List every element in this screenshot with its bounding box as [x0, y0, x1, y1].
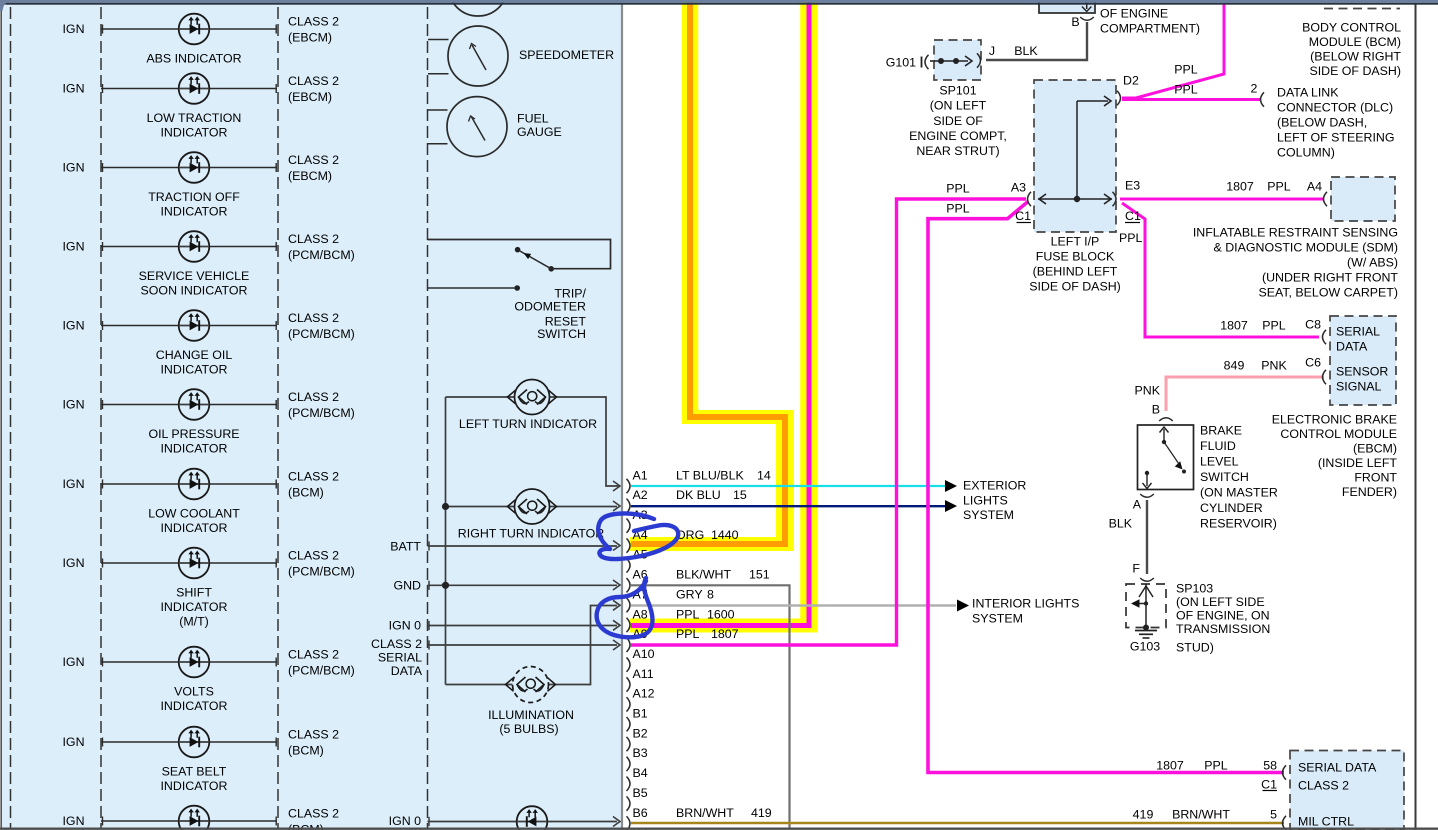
- svg-text:IGN: IGN: [62, 81, 84, 95]
- svg-text:PPL: PPL: [946, 201, 970, 215]
- svg-text:419: 419: [751, 806, 772, 820]
- svg-text:(INSIDE LEFT: (INSIDE LEFT: [1318, 456, 1398, 470]
- svg-text:SYSTEM: SYSTEM: [972, 611, 1023, 625]
- svg-text:PPL: PPL: [1204, 758, 1228, 772]
- trip/odometer reset switch: [428, 240, 611, 269]
- gauge (partial, scrolled off top): [448, 0, 508, 16]
- svg-text:A: A: [1133, 497, 1142, 511]
- svg-text:& DIAGNOSTIC MODULE (SDM): & DIAGNOSTIC MODULE (SDM): [1214, 240, 1399, 254]
- svg-text:1807: 1807: [1156, 758, 1184, 772]
- wire PPL to DLC D2 from top: [1122, 3, 1224, 98]
- svg-text:(ON MASTER: (ON MASTER: [1200, 485, 1278, 499]
- wire PPL 1600 (magenta): [631, 0, 809, 626]
- svg-text:(W/ ABS): (W/ ABS): [1347, 255, 1398, 269]
- svg-text:BRN/WHT: BRN/WHT: [676, 806, 734, 820]
- wire BLK from B to SP101: [986, 22, 1087, 60]
- svg-text:INDICATOR: INDICATOR: [160, 204, 227, 218]
- svg-text:BLK/WHT: BLK/WHT: [676, 568, 732, 582]
- svg-text:MODULE (BCM): MODULE (BCM): [1309, 35, 1401, 49]
- svg-text:A8: A8: [633, 607, 648, 621]
- svg-text:SP101: SP101: [939, 83, 976, 97]
- svg-text:CLASS 2: CLASS 2: [288, 232, 339, 246]
- svg-text:ENGINE COMPT,: ENGINE COMPT,: [909, 129, 1007, 143]
- svg-text:1807: 1807: [1226, 179, 1254, 193]
- svg-text:B2: B2: [633, 726, 648, 740]
- svg-text:A1: A1: [633, 468, 648, 482]
- svg-text:(PCM/BCM): (PCM/BCM): [288, 663, 355, 677]
- svg-text:A11: A11: [633, 667, 654, 681]
- svg-text:SIDE OF: SIDE OF: [933, 114, 983, 128]
- svg-text:SHIFT: SHIFT: [176, 585, 212, 599]
- svg-text:IGN 0: IGN 0: [389, 814, 421, 828]
- svg-text:FRONT: FRONT: [1354, 470, 1397, 484]
- svg-text:GRY: GRY: [676, 587, 703, 601]
- svg-text:CONNECTOR (DLC): CONNECTOR (DLC): [1277, 100, 1393, 114]
- svg-text:INDICATOR: INDICATOR: [160, 600, 227, 614]
- svg-text:SERVICE VEHICLE: SERVICE VEHICLE: [139, 269, 250, 283]
- body control module box (cut off): [1324, 8, 1400, 10]
- splice SP103: [1126, 584, 1166, 628]
- svg-text:IGN: IGN: [62, 655, 84, 669]
- svg-text:ODOMETER: ODOMETER: [514, 300, 586, 314]
- hand-drawn annotation circle around A8: [597, 578, 653, 637]
- cluster connector pin brackets A1-B7: [627, 479, 631, 493]
- svg-text:J: J: [989, 44, 995, 58]
- svg-text:B6: B6: [633, 806, 648, 820]
- svg-text:IGN: IGN: [62, 239, 84, 253]
- svg-text:SIDE OF DASH): SIDE OF DASH): [1309, 64, 1401, 78]
- svg-text:LOW TRACTION: LOW TRACTION: [147, 111, 242, 125]
- svg-text:INFLATABLE RESTRAINT SENSING: INFLATABLE RESTRAINT SENSING: [1193, 225, 1398, 239]
- svg-text:C8: C8: [1305, 317, 1321, 331]
- svg-text:PPL: PPL: [1262, 318, 1286, 332]
- svg-text:CHANGE OIL: CHANGE OIL: [156, 348, 233, 362]
- svg-text:FENDER): FENDER): [1342, 485, 1397, 499]
- svg-text:FLUID: FLUID: [1200, 439, 1236, 453]
- window top bar: [0, 0, 1438, 3]
- svg-text:(PCM/BCM): (PCM/BCM): [288, 327, 355, 341]
- wire GRY 8 to interior lights: [631, 604, 956, 606]
- svg-text:A2: A2: [633, 488, 648, 502]
- svg-text:IGN: IGN: [62, 318, 84, 332]
- svg-text:IGN: IGN: [62, 556, 84, 570]
- svg-text:SYSTEM: SYSTEM: [963, 508, 1014, 522]
- svg-text:A3: A3: [1011, 180, 1026, 194]
- svg-text:15: 15: [733, 488, 747, 502]
- svg-text:BRN/WHT: BRN/WHT: [1172, 807, 1230, 821]
- svg-text:C6: C6: [1305, 355, 1321, 369]
- dashed frame column lines: [10, 7, 12, 828]
- svg-text:CYLINDER: CYLINDER: [1200, 501, 1263, 515]
- svg-text:IGN: IGN: [62, 814, 84, 828]
- svg-text:1600: 1600: [707, 607, 735, 621]
- speedometer gauge: [428, 39, 449, 41]
- svg-text:SERIAL: SERIAL: [1336, 324, 1380, 338]
- svg-text:151: 151: [749, 568, 770, 582]
- svg-text:(PCM/BCM): (PCM/BCM): [288, 564, 355, 578]
- left window edge: [0, 10, 2, 828]
- svg-text:(BELOW DASH,: (BELOW DASH,: [1277, 115, 1367, 129]
- svg-text:CLASS 2: CLASS 2: [288, 311, 339, 325]
- svg-text:(BEHIND LEFT: (BEHIND LEFT: [1033, 264, 1118, 278]
- svg-text:G101: G101: [886, 55, 916, 69]
- svg-text:(UNDER RIGHT FRONT: (UNDER RIGHT FRONT: [1262, 270, 1398, 284]
- svg-text:1807: 1807: [1220, 318, 1248, 332]
- svg-text:1807: 1807: [711, 627, 739, 641]
- svg-text:BLK: BLK: [1014, 44, 1038, 58]
- svg-text:GAUGE: GAUGE: [517, 125, 562, 139]
- left turn indicator bulb: [515, 380, 550, 415]
- svg-text:CLASS 2: CLASS 2: [288, 548, 339, 562]
- svg-text:(PCM/BCM): (PCM/BCM): [288, 248, 355, 262]
- svg-text:SERIAL: SERIAL: [378, 650, 422, 664]
- wire PPL D2 to DLC pin 2: [1122, 98, 1261, 101]
- svg-text:2: 2: [1251, 81, 1258, 95]
- svg-text:PPL: PPL: [1174, 62, 1198, 76]
- illumination bulb (5 bulbs): [513, 667, 549, 703]
- wire DK BLU 15 to exterior lights: [631, 505, 945, 507]
- svg-text:LEFT TURN INDICATOR: LEFT TURN INDICATOR: [459, 417, 597, 431]
- right turn indicator bulb: [515, 489, 550, 524]
- svg-text:849: 849: [1224, 358, 1245, 372]
- svg-text:PNK: PNK: [1261, 358, 1287, 372]
- svg-text:LEFT OF STEERING: LEFT OF STEERING: [1277, 130, 1395, 144]
- svg-text:ILLUMINATION: ILLUMINATION: [488, 708, 574, 722]
- panel/harness boundary: [621, 5, 623, 830]
- svg-text:CLASS 2: CLASS 2: [288, 74, 339, 88]
- svg-text:CLASS 2: CLASS 2: [288, 647, 339, 661]
- svg-text:OF ENGINE: OF ENGINE: [1100, 6, 1168, 20]
- svg-text:(BELOW RIGHT: (BELOW RIGHT: [1310, 49, 1401, 63]
- svg-text:OIL PRESSURE: OIL PRESSURE: [148, 427, 239, 441]
- wire PNK 849 EBCM C6 to brake fluid level switch: [1166, 377, 1324, 411]
- wire: left turn indicator to pin A1: [446, 397, 619, 486]
- svg-text:IGN: IGN: [62, 735, 84, 749]
- ground G103: [1143, 625, 1149, 631]
- left I/P fuse block: [1034, 80, 1116, 232]
- svg-text:IGN: IGN: [62, 477, 84, 491]
- interior lights system arrow: [957, 600, 969, 612]
- svg-text:SWITCH: SWITCH: [537, 327, 586, 341]
- svg-text:NEAR STRUT): NEAR STRUT): [916, 144, 999, 158]
- svg-text:IGN: IGN: [62, 22, 84, 36]
- highlighter band over ORG 1440 wire: [682, 0, 699, 424]
- svg-text:SERIAL DATA: SERIAL DATA: [1298, 760, 1377, 774]
- svg-text:RIGHT TURN INDICATOR: RIGHT TURN INDICATOR: [458, 526, 604, 540]
- svg-text:PNK: PNK: [1135, 383, 1161, 397]
- svg-text:SENSOR: SENSOR: [1336, 364, 1388, 378]
- svg-text:COLUMN): COLUMN): [1277, 145, 1335, 159]
- svg-text:(ON LEFT SIDE: (ON LEFT SIDE: [1176, 595, 1265, 609]
- svg-text:INDICATOR: INDICATOR: [160, 521, 227, 535]
- svg-text:(5 BULBS): (5 BULBS): [499, 722, 558, 736]
- svg-text:RESERVOIR): RESERVOIR): [1200, 516, 1277, 530]
- fuel gauge: [428, 109, 448, 111]
- svg-text:B: B: [1071, 15, 1079, 29]
- svg-text:CLASS 2: CLASS 2: [1298, 778, 1349, 792]
- svg-text:PPL: PPL: [946, 181, 970, 195]
- svg-text:SIGNAL: SIGNAL: [1336, 379, 1382, 393]
- svg-text:INTERIOR LIGHTS: INTERIOR LIGHTS: [972, 596, 1079, 610]
- MIL indicator lamp: [517, 806, 548, 830]
- svg-text:SPEEDOMETER: SPEEDOMETER: [519, 48, 614, 62]
- wire PPL 1807 pin A9 up to fuse block A3: [631, 199, 1026, 645]
- right window edge: [1415, 4, 1417, 830]
- svg-text:INDICATOR: INDICATOR: [160, 779, 227, 793]
- svg-text:SEAT BELT: SEAT BELT: [162, 764, 227, 778]
- svg-text:CLASS 2: CLASS 2: [288, 806, 339, 820]
- svg-text:ELECTRONIC BRAKE: ELECTRONIC BRAKE: [1272, 412, 1397, 426]
- svg-text:DATA LINK: DATA LINK: [1277, 85, 1339, 99]
- wire BRN/WHT 419 pin B6 to MIL CTRL: [631, 822, 1284, 824]
- svg-text:(EBCM): (EBCM): [288, 169, 332, 183]
- svg-text:IGN: IGN: [62, 397, 84, 411]
- svg-text:(EBCM): (EBCM): [288, 90, 332, 104]
- svg-text:STUD): STUD): [1176, 640, 1214, 654]
- wire ORG 1440 (orange): [631, 0, 785, 544]
- illumination bulbs wire: [446, 684, 514, 686]
- svg-text:A12: A12: [633, 687, 655, 701]
- svg-text:LEFT I/P: LEFT I/P: [1051, 234, 1100, 248]
- svg-text:CLASS 2: CLASS 2: [288, 390, 339, 404]
- svg-text:TRACTION OFF: TRACTION OFF: [148, 190, 240, 204]
- svg-text:VOLTS: VOLTS: [174, 684, 214, 698]
- wire BLK/WHT 151: [631, 585, 790, 827]
- svg-text:C1: C1: [1125, 209, 1141, 223]
- svg-text:SOON INDICATOR: SOON INDICATOR: [141, 283, 248, 297]
- svg-text:(M/T): (M/T): [179, 615, 209, 629]
- wire: right turn indicator to pin A2: [446, 506, 618, 508]
- svg-text:LOW COOLANT: LOW COOLANT: [148, 506, 240, 520]
- svg-text:B1: B1: [633, 707, 648, 721]
- svg-text:PPL: PPL: [676, 627, 700, 641]
- svg-text:CLASS 2: CLASS 2: [288, 727, 339, 741]
- svg-text:INDICATOR: INDICATOR: [160, 699, 227, 713]
- svg-text:CLASS 2: CLASS 2: [288, 153, 339, 167]
- svg-text:58: 58: [1263, 758, 1277, 772]
- svg-text:LEVEL: LEVEL: [1200, 454, 1239, 468]
- wire BLK switch to SP103: [1146, 500, 1148, 574]
- svg-text:LIGHTS: LIGHTS: [963, 493, 1008, 507]
- svg-text:(EBCM): (EBCM): [1353, 441, 1397, 455]
- fuse block internal bus: [1038, 198, 1112, 200]
- feed wire start ticks: [428, 541, 430, 550]
- svg-text:GND: GND: [393, 578, 421, 592]
- svg-text:B5: B5: [633, 786, 648, 800]
- svg-text:(PCM/BCM): (PCM/BCM): [288, 406, 355, 420]
- svg-text:1440: 1440: [711, 528, 739, 542]
- svg-text:SP103: SP103: [1176, 581, 1213, 595]
- svg-text:MIL CTRL: MIL CTRL: [1298, 814, 1354, 828]
- svg-text:E3: E3: [1125, 178, 1140, 192]
- svg-text:C1: C1: [1015, 209, 1031, 223]
- wire PPL 1807 from fuse block C1 down to serial data: [928, 202, 1284, 773]
- wire LT BLU/BLK 14 to exterior lights: [631, 485, 945, 487]
- svg-text:BLK: BLK: [1109, 516, 1133, 530]
- svg-text:TRANSMISSION: TRANSMISSION: [1176, 622, 1270, 636]
- svg-text:BRAKE: BRAKE: [1200, 423, 1242, 437]
- svg-text:INDICATOR: INDICATOR: [160, 362, 227, 376]
- bottom frame edge: [0, 828, 1438, 830]
- svg-text:EXTERIOR: EXTERIOR: [963, 478, 1026, 492]
- svg-text:A10: A10: [633, 647, 655, 661]
- svg-text:DATA: DATA: [391, 664, 423, 678]
- svg-text:FUSE BLOCK: FUSE BLOCK: [1036, 249, 1115, 263]
- svg-text:PPL: PPL: [1174, 82, 1198, 96]
- svg-text:(BCM): (BCM): [288, 485, 324, 499]
- svg-text:D2: D2: [1123, 73, 1139, 87]
- svg-text:IGN: IGN: [62, 160, 84, 174]
- svg-text:B3: B3: [633, 746, 648, 760]
- svg-text:(EBCM): (EBCM): [288, 30, 332, 44]
- svg-text:CLASS 2: CLASS 2: [288, 14, 339, 28]
- svg-text:F: F: [1132, 561, 1140, 575]
- junction right turn: [442, 503, 449, 510]
- svg-text:IGN 0: IGN 0: [389, 618, 421, 632]
- exterior lights system arrows: [945, 480, 957, 492]
- svg-text:14: 14: [757, 468, 771, 482]
- svg-text:INDICATOR: INDICATOR: [160, 441, 227, 455]
- instrument cluster panel background: [2, 4, 622, 830]
- svg-text:PPL: PPL: [1119, 231, 1143, 245]
- svg-text:SWITCH: SWITCH: [1200, 470, 1249, 484]
- junction GND: [442, 582, 449, 589]
- hand-drawn annotation circle around A4: [598, 513, 678, 559]
- common return vertical wire: [445, 397, 447, 685]
- svg-text:DATA: DATA: [1336, 339, 1368, 353]
- svg-text:(ON LEFT: (ON LEFT: [930, 98, 987, 112]
- svg-text:B: B: [1152, 402, 1160, 416]
- svg-text:PPL: PPL: [1267, 179, 1291, 193]
- svg-text:ABS INDICATOR: ABS INDICATOR: [146, 51, 241, 65]
- svg-text:PPL: PPL: [676, 607, 700, 621]
- svg-text:5: 5: [1270, 807, 1277, 821]
- highlighter band over PPL 1600 wire: [800, 0, 818, 632]
- svg-text:B4: B4: [633, 766, 648, 780]
- wire PPL 1807 E3/C1 down to EBCM C8: [1122, 203, 1319, 337]
- svg-text:BATT: BATT: [390, 539, 421, 553]
- svg-text:419: 419: [1133, 807, 1154, 821]
- engine compartment component box (cut off): [1039, 0, 1095, 13]
- svg-text:A4: A4: [1307, 179, 1322, 193]
- wire PPL 1807 E3 to SDM A4: [1120, 198, 1324, 201]
- svg-text:LT BLU/BLK: LT BLU/BLK: [676, 468, 744, 482]
- svg-text:8: 8: [707, 587, 714, 601]
- svg-text:(BCM): (BCM): [288, 743, 324, 757]
- svg-text:CLASS 2: CLASS 2: [371, 637, 422, 651]
- svg-text:SIDE OF DASH): SIDE OF DASH): [1029, 279, 1121, 293]
- svg-text:COMPARTMENT): COMPARTMENT): [1100, 21, 1200, 35]
- svg-text:C1: C1: [1261, 777, 1277, 791]
- svg-text:CLASS 2: CLASS 2: [288, 469, 339, 483]
- pin B arrow: [1086, 0, 1088, 9]
- svg-text:INDICATOR: INDICATOR: [160, 125, 227, 139]
- svg-text:OF ENGINE, ON: OF ENGINE, ON: [1176, 608, 1270, 622]
- svg-text:DK BLU: DK BLU: [676, 488, 721, 502]
- svg-text:TRIP/: TRIP/: [554, 287, 586, 301]
- svg-text:CONTROL MODULE: CONTROL MODULE: [1280, 427, 1397, 441]
- svg-text:G103: G103: [1130, 639, 1160, 653]
- svg-text:FUEL: FUEL: [517, 111, 549, 125]
- svg-text:BODY CONTROL: BODY CONTROL: [1302, 20, 1401, 34]
- svg-text:SEAT, BELOW CARPET): SEAT, BELOW CARPET): [1258, 285, 1398, 299]
